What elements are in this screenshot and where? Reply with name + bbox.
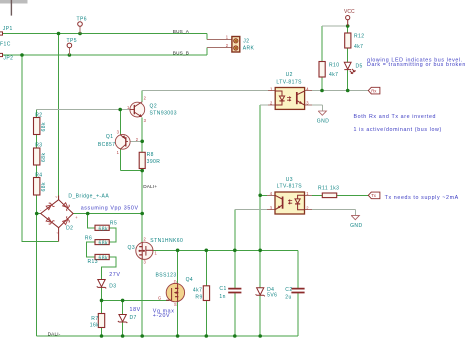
svg-text:D5: D5 [356,64,363,70]
svg-text:18V: 18V [130,307,141,313]
svg-text:STN1HNK60: STN1HNK60 [150,238,183,244]
svg-text:C2: C2 [285,287,292,293]
svg-text:R4: R4 [35,172,42,178]
svg-text:R7: R7 [91,316,98,322]
svg-text:2u: 2u [285,295,291,301]
svg-text:2: 2 [144,236,147,241]
svg-text:~: ~ [55,195,58,200]
svg-text:27V: 27V [109,272,120,278]
svg-text:4k7: 4k7 [354,44,363,50]
svg-text:assuming Vpp 350V: assuming Vpp 350V [81,205,139,211]
svg-text:+-20V: +-20V [153,313,170,319]
svg-text:2: 2 [144,95,147,100]
svg-text:1: 1 [155,251,158,256]
svg-text:R5: R5 [110,221,117,227]
svg-text:R11 1k3: R11 1k3 [318,186,339,192]
svg-text:D7: D7 [130,315,137,321]
svg-text:+: + [75,215,78,220]
svg-text:C1: C1 [219,286,226,292]
svg-text:LTV-817S: LTV-817S [277,183,303,189]
svg-text:R13: R13 [88,259,99,265]
svg-text:68k: 68k [99,241,108,247]
svg-text:R9: R9 [195,294,202,300]
svg-text:U3: U3 [286,177,293,183]
svg-text:68k: 68k [41,122,47,131]
svg-text:68k: 68k [99,255,108,261]
svg-text:R8: R8 [147,152,154,158]
svg-text:4k7: 4k7 [193,288,202,294]
svg-text:R2: R2 [35,112,42,118]
svg-text:Q3: Q3 [128,245,136,251]
svg-text:5V6: 5V6 [267,293,277,299]
svg-text:1: 1 [226,35,229,40]
svg-text:STN93003: STN93003 [150,111,178,117]
svg-text:DALI-: DALI- [48,332,61,337]
svg-text:TP5: TP5 [67,38,78,44]
svg-text:1: 1 [117,150,120,155]
svg-text:Dark = transmitting or bus bro: Dark = transmitting or bus broken [367,62,466,68]
svg-text:1 is active/dominant (bus low): 1 is active/dominant (bus low) [354,127,442,133]
svg-text:JP2: JP2 [3,56,13,62]
svg-text:D2: D2 [66,226,73,232]
svg-text:LTV-817S: LTV-817S [276,79,302,85]
svg-text:68k: 68k [99,226,108,232]
svg-text:BSS123: BSS123 [156,272,177,278]
svg-text:68k: 68k [41,153,47,162]
svg-text:Both Rx and Tx are inverted: Both Rx and Tx are inverted [354,114,437,120]
svg-text:Tx: Tx [371,193,377,198]
svg-text:3: 3 [117,130,120,135]
svg-text:Q4: Q4 [186,277,194,283]
svg-text:68k: 68k [41,182,47,191]
svg-text:3: 3 [144,259,147,264]
svg-text:R10: R10 [329,63,340,69]
svg-text:R12: R12 [354,34,365,40]
svg-text:J2: J2 [243,39,249,45]
svg-text:VCC: VCC [344,9,355,15]
svg-text:S: S [174,302,177,307]
svg-text:D_Bridge_+-AA: D_Bridge_+-AA [68,193,109,199]
svg-text:3: 3 [144,118,147,123]
svg-text:D3: D3 [109,284,116,290]
svg-text:TP6: TP6 [77,17,88,23]
svg-text:Q2: Q2 [150,104,158,110]
svg-text:GND: GND [317,119,329,125]
svg-text:R3: R3 [35,143,42,149]
svg-text:390R: 390R [147,159,161,165]
svg-text:Q1: Q1 [106,134,114,140]
svg-text:D: D [174,279,177,284]
svg-text:F1C: F1C [0,42,11,48]
svg-text:BUS_A: BUS_A [173,29,190,34]
svg-text:DALI+: DALI+ [143,184,157,189]
svg-text:JP1: JP1 [3,26,13,32]
svg-text:4k7: 4k7 [329,72,338,78]
svg-text:Tx needs to supply ~2mA: Tx needs to supply ~2mA [385,195,459,201]
svg-text:R6: R6 [85,235,92,241]
svg-text:Rx: Rx [371,88,377,93]
svg-text:1n: 1n [219,294,225,300]
svg-text:ARK: ARK [243,46,255,52]
svg-text:U2: U2 [286,72,293,78]
svg-text:BUS_B: BUS_B [173,51,189,56]
svg-text:16k: 16k [90,322,99,328]
svg-text:BC857: BC857 [98,142,116,148]
svg-text:G: G [158,296,161,301]
svg-text:GND: GND [350,223,362,229]
